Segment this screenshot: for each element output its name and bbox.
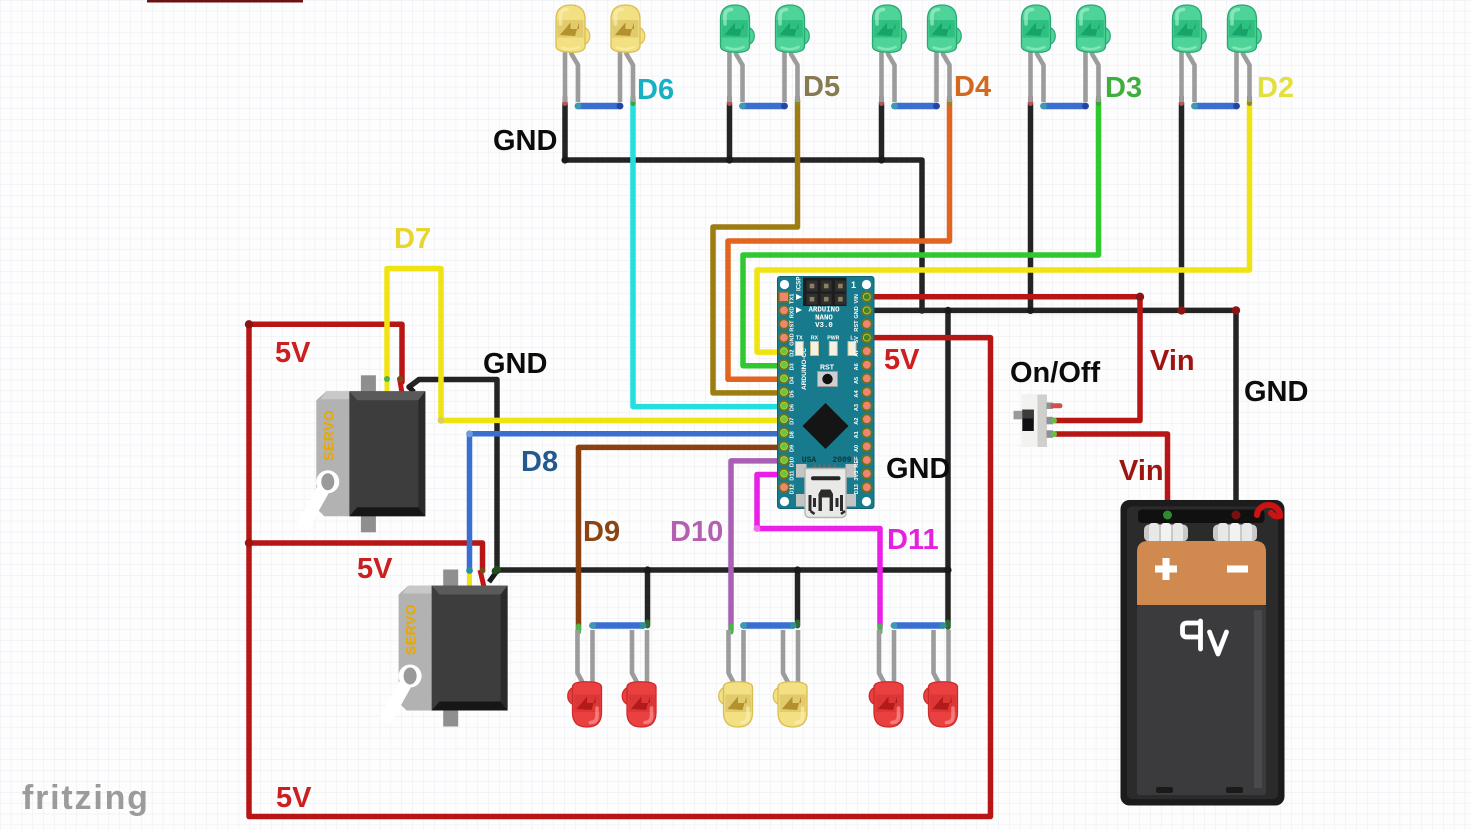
- node junction gnd bus 3: [878, 156, 885, 163]
- svg-text:D10: D10: [670, 516, 723, 548]
- svg-text:5V: 5V: [276, 782, 312, 814]
- LED LED6a (red, bottom row): [568, 630, 602, 727]
- wire D9 brown: [579, 447, 786, 630]
- svg-text:D6: D6: [790, 404, 796, 411]
- wire cap at pin D10: [781, 457, 787, 463]
- svg-text:D10: D10: [790, 457, 796, 467]
- pin A6 (right 6): [862, 360, 872, 370]
- servo motor U1: [304, 375, 425, 532]
- svg-text:A4: A4: [854, 390, 860, 398]
- slide switch SW1 On/Off: [1014, 394, 1061, 447]
- svg-text:5V: 5V: [854, 336, 860, 343]
- LED LED7a (yellow, bottom row): [719, 630, 753, 727]
- wire cap at pin D5: [781, 389, 787, 395]
- svg-text:GND: GND: [790, 333, 796, 345]
- LED LED4b (green, top row): [1077, 5, 1111, 102]
- svg-text:V3.0: V3.0: [815, 322, 833, 330]
- wire Vin nano-switch: [866, 297, 1140, 421]
- svg-text:A1: A1: [854, 431, 860, 438]
- wire tip red x1030.5: [1028, 97, 1033, 104]
- svg-text:A5: A5: [854, 377, 860, 384]
- pin D8 (left 11): [779, 428, 789, 438]
- wire D11 magenta: [757, 475, 880, 629]
- wire 5V loop: [249, 324, 991, 816]
- svg-text:GND: GND: [886, 453, 950, 485]
- node junction gnd p4: [1027, 307, 1034, 314]
- tip D2: [1247, 97, 1252, 104]
- pin RST (left 3): [779, 319, 789, 329]
- tip D6: [631, 97, 636, 104]
- node junction 5v left top: [245, 320, 253, 328]
- svg-text:TX: TX: [796, 336, 803, 342]
- svg-text:D3: D3: [790, 363, 796, 370]
- wire tip red x1181.5: [1179, 97, 1184, 104]
- wire D4 orange: [728, 100, 950, 379]
- wire GND bottom bus: [497, 567, 948, 573]
- node junction bottom bus 2: [794, 566, 801, 573]
- node battery plus tip: [1163, 511, 1172, 520]
- pin D5 (left 8): [779, 387, 789, 397]
- node bend D11 magenta: [754, 525, 761, 532]
- svg-text:ARDUINO-CC: ARDUINO-CC: [801, 348, 808, 390]
- wire GND drop bottom pair2: [795, 570, 801, 626]
- tip D5: [795, 97, 800, 104]
- svg-text:5V: 5V: [884, 344, 920, 376]
- node junction gnd bus 2: [726, 156, 733, 163]
- tip GND bottom3: [946, 622, 951, 627]
- pin A1 (right 11): [862, 428, 872, 438]
- LED LED1b (yellow, top row): [611, 5, 645, 102]
- node junction gnd p5: [1177, 306, 1185, 314]
- node bend D8 blue: [466, 430, 473, 437]
- svg-text:D5: D5: [803, 71, 840, 103]
- node junction bottom bus 1: [644, 566, 651, 573]
- wire 5V branch servo2: [249, 543, 483, 570]
- svg-text:D9: D9: [790, 445, 796, 452]
- svg-text:A2: A2: [854, 418, 860, 425]
- tip GND bottom2: [795, 622, 800, 626]
- pin D9 (left 12): [779, 442, 789, 452]
- LED LED3a (green, top row): [873, 5, 907, 102]
- wire cap at pin GND right: [864, 307, 870, 313]
- LED LED1a (yellow, top row): [556, 5, 590, 102]
- wire D10 purple: [731, 461, 785, 630]
- svg-text:D2: D2: [1257, 72, 1294, 104]
- svg-text:D11: D11: [887, 524, 939, 556]
- pin 5V (right 4): [862, 333, 872, 343]
- wire Vin switch-battery: [1054, 434, 1168, 512]
- pin A0 (right 12): [862, 442, 872, 452]
- svg-text:VIN: VIN: [854, 294, 860, 303]
- wire D7 yellow: [387, 269, 785, 421]
- pin D6 (left 9): [779, 401, 789, 411]
- wire tip red x729.5: [727, 97, 732, 104]
- node bend D7 yellow: [438, 417, 445, 424]
- wire cap at pin D8: [781, 430, 787, 436]
- node junction gnd mid: [944, 307, 951, 314]
- wire cap at pin D4: [781, 375, 787, 381]
- wire GND drop LED pair2: [727, 103, 733, 160]
- svg-text:PWR: PWR: [827, 336, 839, 342]
- svg-text:D13: D13: [854, 484, 860, 494]
- wire blue jumper top pair1: [575, 103, 624, 110]
- wire blue jumper top pair3: [891, 103, 940, 110]
- wire tip red x881.5: [879, 97, 884, 104]
- svg-text:GND: GND: [493, 125, 557, 157]
- LED LED8b (red, bottom row): [924, 630, 958, 727]
- svg-text:A0: A0: [854, 445, 860, 452]
- svg-text:ICSP: ICSP: [796, 277, 803, 291]
- LED LED6b (red, bottom row): [622, 630, 656, 727]
- wire GND drop LED pair3: [879, 103, 885, 160]
- svg-text:ARDUINO: ARDUINO: [808, 307, 840, 315]
- pin RXD (left 2): [779, 306, 789, 316]
- svg-text:On/Off: On/Off: [1010, 357, 1101, 389]
- svg-text:TX1: TX1: [790, 294, 796, 304]
- wire cap at pin D2: [781, 348, 787, 354]
- svg-text:Vin: Vin: [1150, 345, 1195, 377]
- wire GND servo1: [409, 380, 497, 571]
- pin D12 (left 15): [779, 482, 789, 492]
- svg-text:SERVO: SERVO: [320, 410, 336, 461]
- pin REF (right 13): [862, 455, 872, 465]
- pin A2 (right 10): [862, 414, 872, 424]
- LED LED7b (yellow, bottom row): [773, 630, 807, 727]
- svg-text:D4: D4: [954, 71, 991, 103]
- pin A5 (right 7): [862, 374, 872, 384]
- wire tip red x565: [563, 97, 568, 104]
- servo motor U2: [387, 570, 508, 727]
- node junction vin corner: [1136, 293, 1144, 301]
- wire blue jumper top pair4: [1040, 103, 1089, 110]
- svg-text:Vin: Vin: [1119, 455, 1164, 487]
- wire GND nano-to-battery: [866, 310, 1236, 511]
- wire D6 cyan: [633, 100, 785, 407]
- wire cap at pin D9: [781, 443, 787, 449]
- node battery minus tip2: [1232, 511, 1241, 520]
- svg-text:RST: RST: [820, 365, 835, 372]
- Arduino Nano U3: [22, 71, 1308, 817]
- svg-text:D9: D9: [583, 516, 620, 548]
- LED LED5a (green, top row): [1173, 5, 1207, 102]
- svg-text:D6: D6: [637, 74, 674, 106]
- svg-text:GND: GND: [1244, 376, 1308, 408]
- svg-text:5V: 5V: [357, 553, 393, 585]
- svg-text:D2: D2: [790, 350, 796, 357]
- pin D2 (left 5): [779, 346, 789, 356]
- svg-text:D8: D8: [790, 431, 796, 438]
- wire cap at pin D6: [781, 403, 787, 409]
- pin D13 (right 15): [862, 482, 872, 492]
- tip D10 bottom: [729, 626, 734, 632]
- svg-text:2009: 2009: [832, 456, 851, 465]
- wire stray-top (cut off at top edge): [147, 0, 303, 3]
- wire cap at pin D7: [781, 416, 787, 422]
- svg-text:1: 1: [851, 280, 856, 290]
- servo U1 pigtails: [384, 376, 414, 396]
- wire D5 olive: [713, 100, 798, 393]
- pin D11 (left 14): [779, 469, 789, 479]
- svg-text:RST: RST: [854, 320, 860, 332]
- svg-text:A7: A7: [854, 350, 860, 357]
- LED LED3b (green, top row): [928, 5, 962, 102]
- pin RST (right 3): [862, 319, 872, 329]
- svg-text:USA: USA: [802, 456, 817, 465]
- tip GND bottom1: [645, 622, 650, 626]
- svg-text:D11: D11: [790, 471, 796, 481]
- svg-text:D5: D5: [790, 390, 796, 397]
- LED LED2a (green, top row): [721, 5, 755, 102]
- wire cap at pin VIN right: [864, 294, 870, 300]
- wire blue jumper top pair2: [739, 103, 788, 110]
- svg-text:REF: REF: [854, 456, 860, 468]
- wire D2 yellow: [757, 100, 1250, 352]
- svg-text:RST: RST: [790, 320, 796, 332]
- svg-text:A6: A6: [854, 363, 860, 370]
- wire blue jumper top pair5: [1191, 103, 1240, 110]
- svg-text:RXD: RXD: [790, 306, 796, 318]
- pin D7 (left 10): [779, 414, 789, 424]
- pin GND (left 4): [779, 333, 789, 343]
- node junction 5v branch: [245, 539, 253, 547]
- wire blue jumper bottom bpair2: [740, 622, 796, 629]
- pin D4 (left 7): [779, 374, 789, 384]
- svg-text:D4: D4: [790, 376, 796, 384]
- battery BT1 9V: [1121, 500, 1285, 806]
- wire GND drop LED pair5: [1179, 103, 1185, 311]
- pin A3 (right 9): [862, 401, 872, 411]
- svg-text:fritzing: fritzing: [22, 779, 150, 817]
- LED LED4a (green, top row): [1022, 5, 1056, 102]
- svg-text:D8: D8: [521, 446, 558, 478]
- wire D8 blue: [470, 434, 786, 571]
- wire GND drop LED pair4: [1028, 103, 1034, 311]
- wire D3 green: [743, 100, 1099, 366]
- svg-text:NANO: NANO: [815, 314, 833, 322]
- tip D9 bottom: [576, 626, 581, 632]
- svg-text:A3: A3: [854, 404, 860, 411]
- wire blue jumper bottom bpair3: [891, 622, 947, 629]
- svg-text:GND: GND: [854, 306, 860, 318]
- tip D4: [947, 97, 952, 104]
- svg-text:3V3: 3V3: [854, 471, 860, 481]
- servo U2 pigtails: [466, 567, 498, 587]
- wire GND drop bottom pair1: [645, 570, 651, 626]
- svg-text:5V: 5V: [275, 337, 311, 369]
- pin A4 (right 8): [862, 387, 872, 397]
- pin GND (right 2): [862, 306, 872, 316]
- svg-text:D3: D3: [1105, 72, 1142, 104]
- pin VIN (right 1): [862, 292, 872, 302]
- svg-text:GND: GND: [483, 348, 547, 380]
- wire cap at pin D11: [781, 471, 787, 477]
- wire blue jumper bottom bpair1: [589, 622, 646, 629]
- wire cap at pin D3: [781, 362, 787, 368]
- battery minus tip: [1233, 509, 1239, 515]
- node junction gnd bus 1: [561, 156, 568, 163]
- tip D3: [1096, 97, 1101, 104]
- pin 3V3 (right 14): [862, 469, 872, 479]
- pin TX1 (left 1): [779, 292, 789, 302]
- pin A7 (right 5): [862, 346, 872, 356]
- svg-text:RX: RX: [811, 336, 819, 342]
- node junction bottom bus L: [493, 566, 501, 574]
- node junction bottom bus 3: [944, 566, 951, 573]
- svg-text:SERVO: SERVO: [403, 604, 419, 655]
- svg-text:D7: D7: [790, 418, 796, 425]
- wire GND top bus: [565, 103, 922, 311]
- LED LED2b (green, top row): [776, 5, 810, 102]
- LED LED5b (green, top row): [1228, 5, 1262, 102]
- svg-text:D12: D12: [790, 484, 796, 494]
- LED LED8a (red, bottom row): [869, 630, 903, 727]
- tip D11 bottom: [878, 626, 883, 632]
- wire GND mid drop: [945, 310, 951, 627]
- pin D10 (left 13): [779, 455, 789, 465]
- wire cap at pin 5V right: [864, 335, 870, 341]
- pin D3 (left 6): [779, 360, 789, 370]
- node junction gnd corner: [1232, 306, 1240, 314]
- svg-text:D7: D7: [394, 223, 431, 255]
